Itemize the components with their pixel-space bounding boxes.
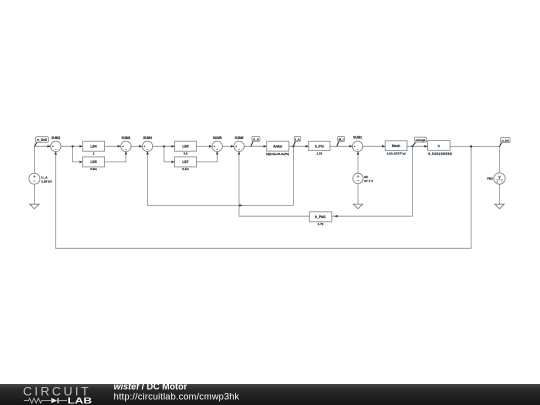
ground below Ml bbox=[353, 204, 362, 209]
node label n_Soll bbox=[34, 137, 48, 147]
voltage source U_A bbox=[29, 173, 53, 184]
wire LB5 to SUM3 bottom bbox=[105, 151, 126, 162]
ground below U_A bbox=[30, 204, 39, 209]
block LB5 bbox=[83, 157, 105, 171]
arrow up into SUM1 bottom bbox=[357, 151, 360, 154]
wire SUM1 down to Ml source bbox=[357, 151, 359, 173]
arrow into SUM1 bbox=[349, 145, 352, 148]
arrow into SUM3 bbox=[118, 145, 121, 148]
block LB4 bbox=[83, 141, 105, 155]
wire k_Phi to SUM1 bbox=[330, 145, 353, 147]
wire SUM4 out bbox=[153, 145, 175, 147]
wire LB7 to SUM5 bottom bbox=[197, 151, 218, 162]
svg-text:9.549296586: 9.549296586 bbox=[428, 152, 452, 156]
svg-text:SUM6: SUM6 bbox=[235, 136, 244, 140]
wire n block to n_Ist bbox=[450, 146, 499, 148]
wire Anker to k_Phi bbox=[289, 145, 309, 147]
wire main row SUM2 to LB4 bbox=[34, 145, 50, 147]
arrow into LB6 bbox=[171, 145, 174, 148]
block LB7 bbox=[175, 157, 197, 171]
svg-text:3.9: 3.9 bbox=[183, 152, 187, 156]
svg-text:wistef / DC Motor: wistef / DC Motor bbox=[114, 382, 188, 392]
svg-text:0.9/s: 0.9/s bbox=[90, 167, 97, 171]
wire LB4 to SUM3 bbox=[105, 145, 121, 147]
summing junction SUM6 bbox=[234, 136, 244, 151]
svg-text:http://circuitlab.com/cmwp3hk: http://circuitlab.com/cmwp3hk bbox=[114, 391, 240, 401]
arrow into SUM2 bbox=[47, 145, 50, 148]
arrow up into SUM4 bottom bbox=[146, 151, 149, 154]
svg-text:SUM2: SUM2 bbox=[51, 136, 60, 140]
junction dot SUM4 branch bbox=[163, 145, 165, 147]
ground below VM1 bbox=[495, 204, 504, 209]
wire branch down to LB7 bbox=[164, 146, 175, 162]
logo resistor zigzag bbox=[24, 398, 51, 403]
arrow into Anker bbox=[264, 145, 267, 148]
wire SUM1 to Mech bbox=[363, 145, 386, 147]
svg-text:SUM1: SUM1 bbox=[353, 136, 362, 140]
wire n_Ist down to VM1 bbox=[499, 147, 501, 173]
footer bar bbox=[0, 384, 540, 405]
arrow up into SUM5 bottom bbox=[216, 151, 219, 154]
block Anker bbox=[266, 141, 289, 156]
svg-text:LB6: LB6 bbox=[182, 145, 188, 149]
arrow up into SUM3 bottom bbox=[125, 151, 128, 154]
arrow into n block bbox=[424, 145, 427, 148]
svg-text:n_Ist: n_Ist bbox=[502, 138, 509, 142]
svg-text:U_A: U_A bbox=[253, 137, 260, 141]
wire speed feedback n_Ist to SUM2 bottom bbox=[56, 147, 471, 249]
svg-text:0.1/s: 0.1/s bbox=[182, 167, 189, 171]
wire SUM3 to SUM4 bbox=[131, 145, 142, 147]
svg-text:SUM4: SUM4 bbox=[143, 136, 152, 140]
junction dot n_Ist feedback bbox=[470, 145, 472, 147]
svg-text:n_Soll: n_Soll bbox=[37, 138, 47, 142]
wire LB6 to SUM5 bbox=[197, 145, 213, 147]
arrow on current feedback crossing bbox=[239, 204, 242, 207]
svg-text:1.79: 1.79 bbox=[316, 151, 322, 155]
arrow into Mech bbox=[382, 145, 385, 148]
summing junction SUM3 bbox=[121, 136, 131, 151]
block k_Phi bbox=[309, 141, 330, 155]
arrow into k_Phi1 right side bbox=[334, 215, 337, 218]
block n bbox=[428, 141, 453, 156]
svg-text:I_A: I_A bbox=[295, 137, 301, 141]
summing junction SUM2 bbox=[51, 136, 61, 151]
svg-text:LB4: LB4 bbox=[90, 145, 96, 149]
arrow into SUM4 bbox=[139, 145, 142, 148]
logo diode lead bbox=[59, 400, 67, 402]
wire Mech to n block bbox=[407, 145, 428, 147]
arrow into k_Phi bbox=[306, 145, 309, 148]
wire emf feedback omega to k_Phi1 bbox=[332, 146, 413, 216]
wire SUM6 to Anker bbox=[244, 145, 267, 147]
logo diode bbox=[51, 398, 57, 403]
block LB6 bbox=[175, 141, 197, 155]
svg-text:k_Phi1: k_Phi1 bbox=[315, 215, 326, 219]
wire VM1 to ground bbox=[499, 184, 501, 204]
svg-text:1.79: 1.79 bbox=[318, 222, 324, 226]
wire n_Soll corner down to U_A source bbox=[33, 146, 35, 173]
svg-text:1/(0.0237*s): 1/(0.0237*s) bbox=[387, 152, 406, 156]
wire k_Phi1 out to SUM6 bottom bbox=[239, 151, 309, 216]
svg-text:SUM3: SUM3 bbox=[121, 136, 130, 140]
svg-text:Anker: Anker bbox=[273, 145, 283, 149]
arrow into SUM6 bbox=[231, 145, 234, 148]
wire SUM5 to SUM6 bbox=[222, 145, 234, 147]
svg-text:k_Phi: k_Phi bbox=[315, 144, 324, 148]
summing junction SUM4 bbox=[142, 136, 152, 151]
arrow into LB4 bbox=[80, 145, 83, 148]
voltmeter VM1 bbox=[487, 173, 505, 184]
wire Ml source to ground bbox=[357, 184, 359, 205]
block Mech bbox=[385, 141, 407, 156]
svg-text:SUM5: SUM5 bbox=[213, 136, 222, 140]
wire branch down to LB5 bbox=[73, 146, 83, 162]
svg-text:Mech: Mech bbox=[392, 144, 400, 148]
junction dot omega bbox=[411, 145, 413, 147]
svg-text:37.7 V: 37.7 V bbox=[364, 179, 374, 183]
arrow into LB5 bbox=[80, 161, 83, 164]
wire current feedback I_A to SUM4 bottom bbox=[148, 146, 294, 205]
arrow up into SUM6 bottom bbox=[238, 151, 241, 154]
junction dot I_A bbox=[292, 145, 294, 147]
svg-text:1/((2.1E+13.4m)*s): 1/((2.1E+13.4m)*s) bbox=[266, 152, 289, 156]
svg-text:LAB: LAB bbox=[68, 395, 93, 405]
summing junction SUM1 bbox=[352, 136, 362, 152]
wire U_A source to ground bbox=[33, 184, 35, 204]
voltage source Ml bbox=[353, 173, 374, 183]
svg-text:1.65 kV: 1.65 kV bbox=[41, 179, 53, 183]
node label n_Ist bbox=[500, 138, 511, 147]
svg-text:omega: omega bbox=[416, 138, 426, 142]
node label I_A bbox=[293, 136, 300, 146]
block k_Phi1 bbox=[309, 212, 332, 226]
junction dot SUM2 branch bbox=[72, 145, 74, 147]
wire SUM2 out bbox=[61, 145, 83, 147]
summing junction SUM5 bbox=[212, 136, 222, 151]
arrow into LB7 bbox=[171, 161, 174, 164]
node label M_i bbox=[337, 136, 345, 146]
arrow into SUM5 bbox=[209, 145, 212, 148]
svg-text:VM1: VM1 bbox=[487, 177, 494, 181]
svg-text:M_i: M_i bbox=[339, 137, 344, 141]
node label U_A bbox=[251, 136, 260, 146]
svg-text:LB7: LB7 bbox=[182, 160, 188, 164]
node label omega bbox=[412, 137, 426, 146]
svg-text:n: n bbox=[438, 144, 440, 148]
svg-text:LB5: LB5 bbox=[90, 160, 96, 164]
arrow up into SUM2 bottom bbox=[54, 151, 57, 154]
